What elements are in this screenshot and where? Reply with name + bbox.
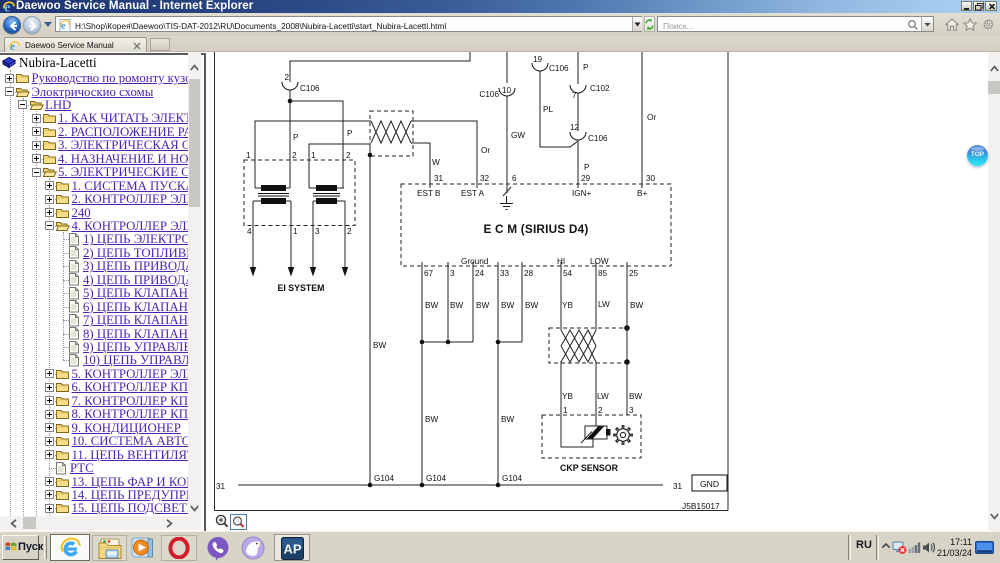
svg-text:B+: B+	[637, 189, 647, 198]
svg-text:LW: LW	[598, 300, 610, 309]
svg-text:C102: C102	[590, 84, 610, 93]
svg-text:12: 12	[570, 123, 580, 132]
svg-text:AP: AP	[283, 542, 301, 557]
svg-text:24: 24	[475, 269, 485, 278]
svg-text:BW: BW	[425, 301, 438, 310]
svg-text:31: 31	[434, 174, 444, 183]
svg-text:3: 3	[629, 406, 634, 415]
svg-text:J5B15017: J5B15017	[682, 501, 720, 511]
svg-text:30: 30	[646, 174, 656, 183]
svg-text:BW: BW	[476, 301, 489, 310]
svg-text:G104: G104	[426, 474, 446, 483]
svg-text:Or: Or	[481, 146, 490, 155]
svg-text:2: 2	[284, 73, 289, 82]
svg-text:67: 67	[424, 269, 434, 278]
svg-text:E C M (SIRIUS D4): E C M (SIRIUS D4)	[484, 222, 589, 236]
svg-text:3: 3	[450, 269, 455, 278]
svg-text:1: 1	[311, 151, 316, 160]
svg-text:P: P	[347, 129, 353, 138]
svg-text:85: 85	[598, 269, 608, 278]
svg-text:C106: C106	[549, 64, 569, 73]
svg-text:2: 2	[292, 151, 297, 160]
svg-text:C106: C106	[479, 90, 499, 99]
svg-text:W: W	[432, 158, 440, 167]
svg-text:29: 29	[581, 174, 591, 183]
svg-text:31: 31	[216, 482, 226, 491]
svg-text:1: 1	[293, 227, 298, 236]
svg-text:G104: G104	[374, 474, 394, 483]
svg-text:10: 10	[502, 86, 512, 95]
svg-text:GW: GW	[511, 131, 525, 140]
svg-text:BW: BW	[525, 301, 538, 310]
svg-text:EST B: EST B	[417, 189, 441, 198]
svg-text:2: 2	[347, 227, 352, 236]
svg-text:Ground: Ground	[461, 257, 489, 266]
svg-text:BW: BW	[501, 415, 514, 424]
svg-text:PL: PL	[543, 105, 553, 114]
svg-text:BW: BW	[629, 392, 642, 401]
svg-text:33: 33	[500, 269, 510, 278]
svg-text:1: 1	[246, 151, 251, 160]
svg-text:BW: BW	[501, 301, 514, 310]
svg-text:31: 31	[673, 482, 683, 491]
svg-text:GND: GND	[700, 479, 719, 489]
svg-text:EST A: EST A	[461, 189, 485, 198]
svg-text:BW: BW	[373, 341, 386, 350]
svg-text:7: 7	[572, 91, 577, 100]
svg-text:28: 28	[524, 269, 534, 278]
svg-text:BW: BW	[425, 415, 438, 424]
svg-text:BW: BW	[450, 301, 463, 310]
svg-text:YB: YB	[562, 392, 573, 401]
svg-text:4: 4	[247, 227, 252, 236]
svg-text:C106: C106	[588, 134, 608, 143]
svg-text:1: 1	[563, 406, 568, 415]
svg-text:3: 3	[315, 227, 320, 236]
svg-text:54: 54	[563, 269, 573, 278]
svg-text:2: 2	[346, 151, 351, 160]
svg-text:P: P	[584, 163, 590, 172]
svg-text:19: 19	[533, 55, 543, 64]
svg-text:G104: G104	[502, 474, 522, 483]
svg-text:25: 25	[629, 269, 639, 278]
svg-text:CKP SENSOR: CKP SENSOR	[560, 463, 619, 473]
svg-text:BW: BW	[630, 301, 643, 310]
svg-text:P: P	[583, 63, 589, 72]
svg-text:LW: LW	[597, 392, 609, 401]
svg-text:P: P	[293, 133, 299, 142]
svg-text:6: 6	[512, 174, 517, 183]
svg-text:C106: C106	[300, 84, 320, 93]
svg-text:YB: YB	[562, 301, 573, 310]
svg-text:LOW: LOW	[590, 257, 609, 266]
svg-text:Or: Or	[647, 113, 656, 122]
svg-text:EI SYSTEM: EI SYSTEM	[278, 283, 325, 293]
svg-text:IGN+: IGN+	[572, 189, 592, 198]
svg-text:HI: HI	[557, 257, 565, 266]
svg-text:2: 2	[598, 406, 603, 415]
svg-text:32: 32	[480, 174, 490, 183]
